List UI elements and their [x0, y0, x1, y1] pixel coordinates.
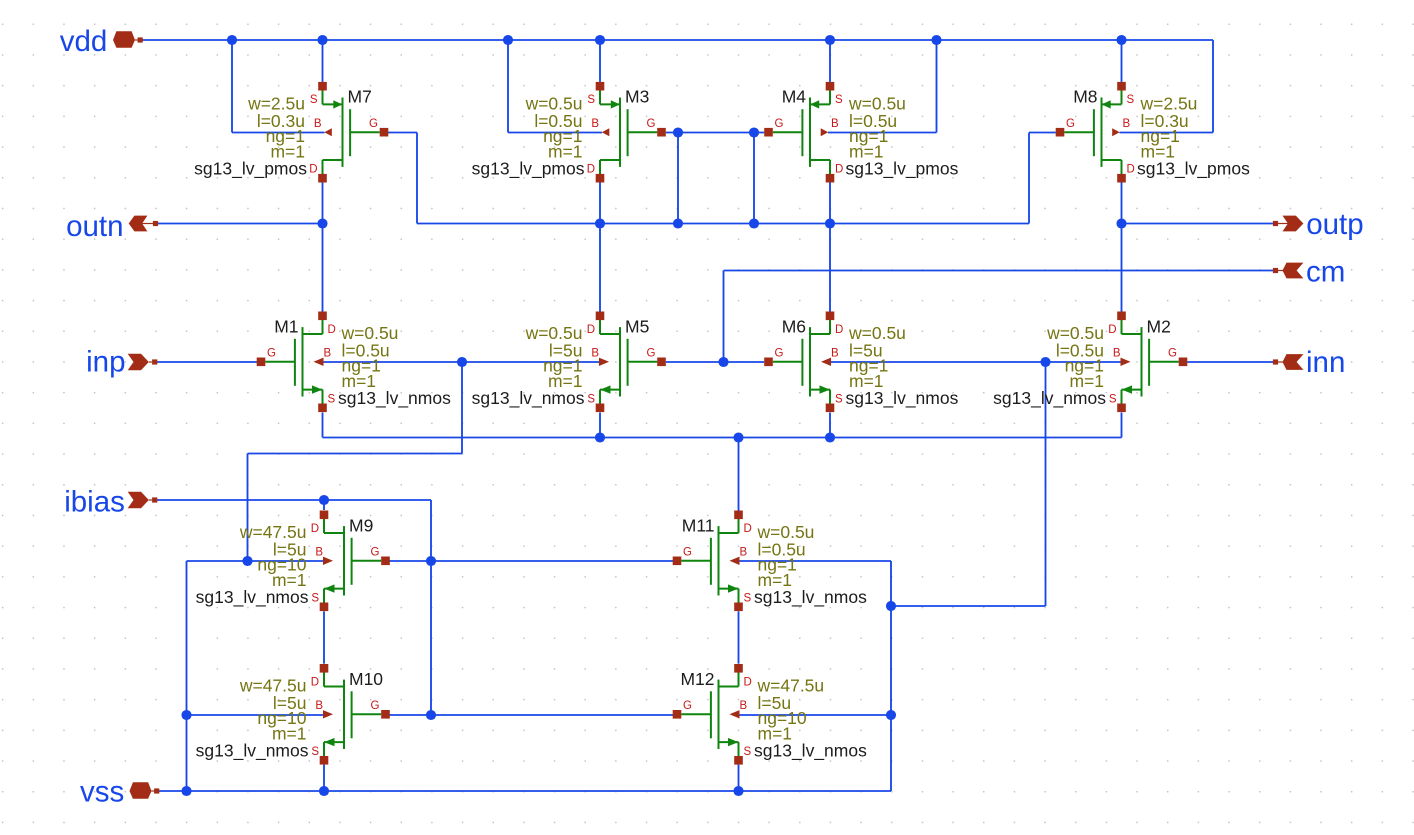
- transistor M1: [257, 312, 451, 413]
- wire M8 source drop: [1121, 40, 1123, 82]
- junction vdd-M4source: [825, 35, 835, 45]
- wire outn column: [322, 183, 324, 312]
- wire cm drop: [723, 271, 725, 363]
- wire M11-M12 column: [738, 611, 740, 663]
- wire M9-M10 column: [323, 611, 325, 663]
- transistor M10: [196, 664, 390, 765]
- wire left bulk: [323, 361, 601, 363]
- junction outp: [1116, 218, 1126, 228]
- wire M12 bulk wire: [739, 714, 892, 716]
- svg-text:sg13_lv_nmos: sg13_lv_nmos: [472, 388, 585, 409]
- svg-text:vdd: vdd: [60, 25, 108, 58]
- svg-text:S: S: [311, 592, 319, 604]
- svg-text:cm: cm: [1306, 256, 1345, 289]
- wire M7 source drop: [322, 40, 324, 82]
- svg-text:S: S: [744, 746, 752, 758]
- transistor M2: [993, 312, 1187, 413]
- svg-text:M4: M4: [782, 87, 807, 107]
- svg-text:S: S: [587, 393, 595, 405]
- svg-text:B: B: [315, 547, 323, 559]
- svg-text:S: S: [1109, 393, 1117, 405]
- wire tail rail: [323, 437, 1122, 439]
- svg-text:G: G: [683, 547, 692, 559]
- junction vdd-M3source: [595, 35, 605, 45]
- wire vdd right drop: [1212, 40, 1214, 133]
- junction M4 gate: [749, 127, 759, 137]
- svg-text:S: S: [835, 94, 843, 106]
- svg-text:G: G: [1168, 348, 1177, 360]
- svg-text:S: S: [744, 592, 752, 604]
- junction diode rail M3 drain: [595, 218, 605, 228]
- wire M3 gate drop: [677, 133, 679, 224]
- svg-text:outp: outp: [1306, 208, 1363, 241]
- wire M7 gate drop: [416, 133, 418, 224]
- transistor M7: [194, 82, 388, 183]
- pin inn: [1273, 346, 1345, 379]
- wire inp: [157, 361, 259, 363]
- junction diode rail M3 gate: [673, 218, 683, 228]
- svg-text:M6: M6: [782, 316, 806, 336]
- junction cm gates: [718, 357, 728, 367]
- wire M5 source drop: [599, 413, 601, 438]
- junction M10 gate: [426, 710, 436, 720]
- junction vss M12: [733, 786, 743, 796]
- wire M6 source drop: [829, 413, 831, 438]
- svg-text:D: D: [835, 164, 843, 176]
- junction diode rail M4 gate: [749, 218, 759, 228]
- svg-text:B: B: [831, 348, 839, 360]
- wire right bulk: [830, 361, 1122, 363]
- junction vss left: [181, 786, 191, 796]
- svg-text:G: G: [647, 348, 656, 360]
- wire outn: [158, 223, 323, 225]
- svg-text:sg13_lv_nmos: sg13_lv_nmos: [846, 388, 959, 409]
- wire cm: [724, 270, 1274, 272]
- svg-text:M11: M11: [682, 515, 715, 535]
- wire ibias drop: [430, 500, 432, 715]
- svg-text:sg13_lv_pmos: sg13_lv_pmos: [846, 158, 959, 179]
- junction vdd-M8source: [1116, 35, 1126, 45]
- svg-text:sg13_lv_pmos: sg13_lv_pmos: [1137, 158, 1250, 179]
- wire M10-M12 gate: [431, 714, 673, 716]
- wire M3-M5 drain column: [599, 183, 601, 312]
- svg-text:D: D: [1127, 164, 1135, 176]
- svg-text:B: B: [314, 118, 322, 130]
- wire left bulk drop 3: [186, 561, 188, 791]
- junction tail M5: [595, 432, 605, 442]
- junction ibias M9 drain: [319, 495, 329, 505]
- junction outn: [317, 218, 327, 228]
- svg-text:S: S: [587, 94, 595, 106]
- svg-text:G: G: [775, 348, 784, 360]
- wire M9 drain stub: [323, 500, 325, 510]
- wire M4-M6 drain column: [829, 183, 831, 312]
- svg-text:M3: M3: [625, 87, 649, 107]
- wire M12 source drop: [738, 765, 740, 791]
- svg-text:sg13_lv_nmos: sg13_lv_nmos: [754, 741, 867, 762]
- wire M11 bulk wire: [739, 560, 892, 562]
- svg-text:G: G: [371, 547, 380, 559]
- svg-text:inn: inn: [1306, 346, 1345, 379]
- transistor M6: [764, 312, 958, 413]
- wire M3 source drop: [599, 40, 601, 82]
- pin outn: [66, 210, 158, 243]
- transistor M5: [472, 312, 666, 413]
- svg-text:M1: M1: [274, 316, 298, 336]
- junction M10 bulk: [181, 710, 191, 720]
- svg-text:D: D: [311, 523, 319, 535]
- pin inp: [86, 346, 157, 379]
- wire right bulk drop 2: [890, 561, 892, 791]
- junction right bulk 2: [886, 601, 896, 611]
- wire outp: [1122, 223, 1274, 225]
- wire M7 bulk feed: [232, 132, 325, 134]
- svg-text:B: B: [831, 118, 839, 130]
- transistor M11: [673, 511, 867, 612]
- junction left bulk 2: [242, 556, 252, 566]
- svg-text:S: S: [311, 746, 319, 758]
- svg-text:G: G: [267, 348, 276, 360]
- svg-text:G: G: [775, 118, 784, 130]
- wire M8 bulk feed: [1120, 132, 1214, 134]
- wire M5 gate to M6 gate: [666, 361, 764, 363]
- svg-text:sg13_lv_pmos: sg13_lv_pmos: [472, 158, 585, 179]
- wire outp column: [1121, 183, 1123, 312]
- svg-text:D: D: [835, 324, 843, 336]
- wire right bulk drop: [1045, 362, 1047, 606]
- transistor M4: [764, 82, 958, 183]
- svg-text:sg13_lv_nmos: sg13_lv_nmos: [754, 587, 867, 608]
- wire right bulk across: [891, 605, 1046, 607]
- wire M11 drain drop: [738, 438, 740, 511]
- wire M9 gate lead: [389, 560, 431, 562]
- svg-text:M2: M2: [1147, 316, 1171, 336]
- svg-text:B: B: [1113, 348, 1121, 360]
- junction vdd-M7bulk: [227, 35, 237, 45]
- wire M10 gate lead: [389, 714, 431, 716]
- svg-text:D: D: [309, 164, 317, 176]
- junction vdd-M3bulk: [503, 35, 513, 45]
- svg-text:G: G: [369, 118, 378, 130]
- svg-text:M10: M10: [349, 669, 383, 689]
- svg-text:G: G: [371, 700, 380, 712]
- transistor M8: [1056, 82, 1250, 183]
- wire M3 bulk feed: [508, 132, 602, 134]
- junction tail M11: [733, 432, 743, 442]
- junction right bulk: [1040, 357, 1050, 367]
- svg-text:G: G: [647, 118, 656, 130]
- junction vss M10: [319, 786, 329, 796]
- svg-text:M5: M5: [625, 316, 649, 336]
- wire M4 source drop: [829, 40, 831, 82]
- svg-text:D: D: [1108, 324, 1116, 336]
- pin cm: [1273, 256, 1345, 289]
- svg-text:sg13_lv_pmos: sg13_lv_pmos: [194, 158, 307, 179]
- junction left bulk: [457, 357, 467, 367]
- wire left bulk across: [248, 453, 463, 455]
- junction vdd-M4bulk: [931, 35, 941, 45]
- wire M7 bulk drop: [231, 40, 233, 133]
- svg-text:M9: M9: [349, 515, 373, 535]
- svg-text:S: S: [835, 393, 843, 405]
- pin outp: [1273, 208, 1364, 241]
- wire M3 gate to M4 gate: [666, 132, 764, 134]
- pin vdd: [60, 25, 143, 58]
- svg-text:B: B: [591, 348, 599, 360]
- svg-text:D: D: [328, 324, 336, 336]
- svg-text:sg13_lv_nmos: sg13_lv_nmos: [338, 388, 451, 409]
- wire M9-M11 gate: [431, 560, 673, 562]
- wire vss rail: [158, 790, 891, 792]
- wire M8 gate lead: [1029, 132, 1056, 134]
- svg-text:G: G: [683, 700, 692, 712]
- svg-text:sg13_lv_nmos: sg13_lv_nmos: [196, 741, 309, 762]
- junction M12 bulk: [886, 710, 896, 720]
- pin vss: [80, 776, 159, 809]
- wire vdd rail: [143, 39, 1214, 41]
- wire M10 source drop: [323, 765, 325, 791]
- svg-text:D: D: [587, 324, 595, 336]
- wire M4 bulk feed: [828, 132, 937, 134]
- transistor M9: [196, 511, 390, 612]
- svg-text:B: B: [740, 547, 748, 559]
- wire left bulk drop: [461, 362, 463, 454]
- wire left bulk drop 2: [247, 454, 249, 562]
- svg-text:B: B: [591, 118, 599, 130]
- wire M8 gate rise: [1028, 133, 1030, 224]
- wire left bulk across 2: [187, 560, 325, 562]
- svg-text:D: D: [744, 676, 752, 688]
- wire ibias: [157, 499, 431, 501]
- svg-text:B: B: [1123, 118, 1131, 130]
- svg-text:D: D: [744, 523, 752, 535]
- svg-text:ibias: ibias: [64, 486, 125, 519]
- transistor M3: [472, 82, 666, 183]
- wire inn: [1187, 361, 1273, 363]
- svg-text:S: S: [328, 393, 336, 405]
- svg-text:inp: inp: [86, 346, 125, 379]
- wire M10 bulk feed: [187, 714, 325, 716]
- junction M9 gate: [426, 556, 436, 566]
- svg-text:sg13_lv_nmos: sg13_lv_nmos: [196, 587, 309, 608]
- junction tail M6: [825, 432, 835, 442]
- svg-text:outn: outn: [66, 210, 123, 243]
- wire diode rail: [417, 223, 1029, 225]
- wire M7 gate lead: [386, 132, 417, 134]
- svg-text:D: D: [311, 676, 319, 688]
- svg-text:D: D: [587, 164, 595, 176]
- svg-text:M12: M12: [680, 669, 714, 689]
- junction diode rail M4 drain: [825, 218, 835, 228]
- svg-text:M7: M7: [348, 87, 372, 107]
- junction M3 gate: [673, 127, 683, 137]
- wire M4 gate drop: [753, 133, 755, 224]
- transistor M12: [673, 664, 867, 765]
- wire M4 bulk drop: [936, 40, 938, 133]
- svg-text:S: S: [1127, 94, 1135, 106]
- wire M3 bulk drop: [507, 40, 509, 133]
- svg-text:sg13_lv_nmos: sg13_lv_nmos: [993, 388, 1106, 409]
- svg-text:vss: vss: [80, 776, 124, 809]
- junction vdd-M7source: [317, 35, 327, 45]
- svg-text:B: B: [740, 700, 748, 712]
- svg-text:G: G: [1066, 118, 1075, 130]
- svg-text:M8: M8: [1073, 87, 1097, 107]
- svg-text:S: S: [310, 94, 318, 106]
- pin ibias: [64, 486, 157, 519]
- wire M2 source drop: [1121, 413, 1123, 438]
- svg-text:B: B: [315, 700, 323, 712]
- svg-text:B: B: [324, 348, 332, 360]
- wire M1 source drop: [322, 413, 324, 438]
